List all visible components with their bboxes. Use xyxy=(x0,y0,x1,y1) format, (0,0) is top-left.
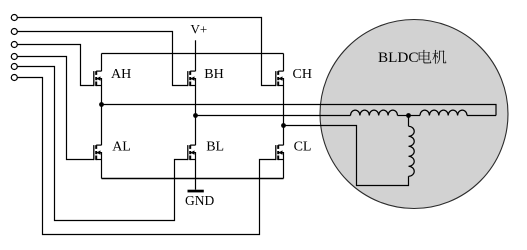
svg-text:V+: V+ xyxy=(191,22,208,37)
wire: terminal 1 to CH gate xyxy=(17,18,275,86)
svg-text:AH: AH xyxy=(111,67,131,82)
wire: terminal 3 to AH gate xyxy=(17,45,93,86)
wire: BH source to phase B node xyxy=(195,86,197,116)
svg-text:AL: AL xyxy=(112,139,131,154)
wire: CH source to phase C node xyxy=(283,86,285,126)
node phase C junction xyxy=(281,123,286,128)
winding L2 (phase A arm) xyxy=(420,110,467,115)
wire: CL drain xyxy=(283,126,285,146)
input terminal 5 xyxy=(11,64,17,70)
ground stub xyxy=(195,179,197,190)
transistor AH xyxy=(94,71,102,86)
transistor BL xyxy=(188,145,196,160)
motor label glyph 电 xyxy=(419,50,432,63)
wire: winding L3 to center node xyxy=(408,116,410,127)
wire: winding L2 to phase A drop xyxy=(467,115,496,117)
svg-text:CL: CL xyxy=(294,140,312,155)
input terminal 2 xyxy=(11,29,17,35)
svg-text:BL: BL xyxy=(206,139,224,154)
wire: terminal 6 to CL gate xyxy=(17,78,275,235)
wire: terminal 5 to BL gate xyxy=(17,67,187,221)
wire: AL drain xyxy=(101,105,103,146)
wire: BL source to ground rail xyxy=(195,160,197,179)
wire: AH drain xyxy=(101,54,103,72)
wire: terminal 2 to BH gate xyxy=(17,32,187,86)
svg-text:BLDC: BLDC xyxy=(378,49,419,66)
wire: BL drain xyxy=(195,116,197,146)
input terminal 4 xyxy=(11,54,17,60)
wire: CH drain xyxy=(283,54,285,72)
wire: CL source to ground rail xyxy=(283,160,285,179)
wire: phase C line xyxy=(284,126,409,186)
BLDC motor body (circle) xyxy=(320,20,508,209)
wire: BH drain xyxy=(195,54,197,72)
node phase B junction xyxy=(193,113,198,118)
transistor AL xyxy=(94,145,102,160)
wire: phase A line to motor xyxy=(102,105,497,116)
wire: winding L1 to center node xyxy=(398,115,409,117)
transistor BH xyxy=(188,71,196,86)
wire: AH source to phase A node xyxy=(101,86,103,105)
input terminal 6 xyxy=(11,75,17,81)
transistor CL xyxy=(276,145,284,160)
svg-text:GND: GND xyxy=(185,193,214,208)
node motor star center xyxy=(406,113,411,118)
motor label glyph 机 xyxy=(432,50,446,64)
wire: center node to winding L2 xyxy=(409,115,421,117)
V+ supply stem xyxy=(195,40,197,53)
svg-text:CH: CH xyxy=(293,67,312,82)
svg-text:BH: BH xyxy=(204,67,223,82)
winding L3 (phase C arm, vertical) xyxy=(409,126,415,176)
input terminal 3 xyxy=(11,42,17,48)
wire: V+ rail xyxy=(102,53,284,55)
wire: phase B line to winding xyxy=(196,115,351,117)
ground bar xyxy=(188,190,204,193)
input terminal 1 xyxy=(11,15,17,21)
wire: terminal 4 to AL gate xyxy=(17,57,93,160)
transistor CH xyxy=(276,71,284,86)
winding L1 (phase B arm) xyxy=(351,110,398,115)
wire: ground rail xyxy=(102,178,284,180)
wire: AL source to ground rail xyxy=(101,160,103,179)
node phase A junction xyxy=(99,102,104,107)
